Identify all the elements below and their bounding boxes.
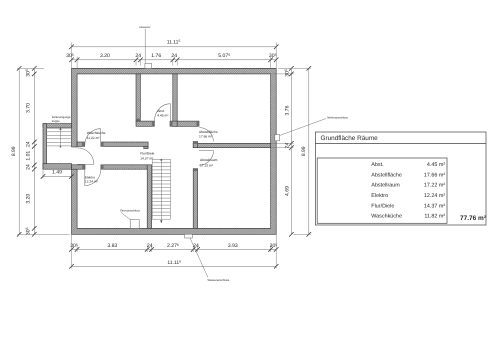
svg-text:77.76 m²: 77.76 m² [460,215,487,222]
svg-text:24: 24 [135,53,141,59]
svg-text:4.45 m²: 4.45 m² [427,162,445,168]
svg-text:Flur/Diele: Flur/Diele [371,203,394,209]
svg-text:Elektro: Elektro [371,193,388,199]
svg-text:17.66 m²: 17.66 m² [424,172,445,178]
svg-text:8.99: 8.99 [11,146,17,156]
svg-text:12.24 m²: 12.24 m² [424,193,445,199]
svg-text:Waschküche: Waschküche [371,214,402,220]
svg-text:Wasseranschluss: Wasseranschluss [208,278,230,282]
svg-text:11.115: 11.115 [167,260,181,266]
svg-text:12.24 m²: 12.24 m² [85,180,99,184]
svg-text:Abstellfläche: Abstellfläche [371,172,402,178]
svg-text:11.82 m²: 11.82 m² [424,214,445,220]
svg-text:14.37 m²: 14.37 m² [424,203,445,209]
svg-text:24: 24 [26,164,32,170]
svg-text:17.22 m²: 17.22 m² [424,183,445,189]
svg-text:24: 24 [26,141,32,147]
svg-text:Waschküche: Waschküche [87,131,106,135]
svg-text:Flur/Diele: Flur/Diele [140,151,154,155]
svg-text:14.37 m²: 14.37 m² [140,156,154,160]
svg-text:3.20: 3.20 [100,53,110,59]
svg-text:11.82 m²: 11.82 m² [87,136,101,140]
svg-text:Grundfläche Räume: Grundfläche Räume [321,135,379,142]
svg-text:8.99: 8.99 [301,146,307,156]
svg-text:Abstellraum: Abstellraum [371,183,400,189]
svg-text:17.22 m²: 17.22 m² [200,164,214,168]
svg-text:305: 305 [25,227,31,235]
svg-text:Stromanschluss: Stromanschluss [120,208,140,212]
svg-text:24: 24 [193,243,199,249]
svg-text:4.45 m²: 4.45 m² [157,113,169,117]
svg-text:3.20: 3.20 [26,194,32,204]
svg-text:Telefonanschluss: Telefonanschluss [327,115,349,119]
svg-text:Abwasser: Abwasser [139,26,151,29]
svg-text:3.83: 3.83 [107,243,117,249]
svg-text:11.115: 11.115 [167,39,181,45]
svg-text:3.93: 3.93 [228,243,238,249]
svg-text:treppe: treppe [52,119,60,123]
svg-text:1.49: 1.49 [52,170,62,176]
svg-text:Abst.: Abst. [371,162,383,168]
svg-text:305: 305 [25,69,31,77]
svg-text:17.66 m²: 17.66 m² [199,134,213,138]
svg-text:24: 24 [171,53,177,59]
svg-text:24: 24 [147,243,153,249]
svg-text:Elektro: Elektro [85,175,95,179]
svg-text:1.76: 1.76 [151,53,161,59]
svg-text:4.69: 4.69 [284,186,290,196]
svg-text:Abstellraum: Abstellraum [200,158,218,162]
svg-text:Abst.: Abst. [157,109,165,113]
svg-text:1.01: 1.01 [26,151,32,161]
svg-text:3.76: 3.76 [284,105,290,115]
svg-text:3.70: 3.70 [26,103,32,113]
